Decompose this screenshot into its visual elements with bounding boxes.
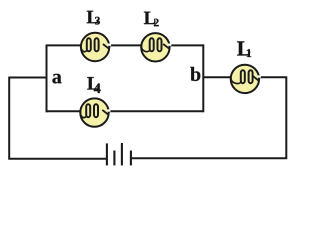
lamp L1: [231, 65, 261, 93]
node a: [52, 74, 61, 84]
lamp L3: [81, 33, 111, 61]
label L4 letter: [87, 77, 99, 89]
wire: inner left vertical (node a): [46, 45, 48, 113]
lamp L2: [141, 33, 171, 61]
wire: top branch: [47, 44, 204, 46]
battery plate 1 (long): [106, 143, 108, 165]
battery plate 2 (short): [113, 151, 115, 166]
label L1 subscript 1: [247, 49, 251, 57]
wire: node b to lamp L1 and outer right vertical down to bottom: [131, 77, 286, 158]
label L1 letter: [237, 41, 250, 55]
label L2 subscript 2: [154, 19, 159, 27]
node b: [190, 67, 200, 81]
label L2 letter: [144, 12, 156, 24]
label L4 subscript 4: [94, 83, 101, 93]
battery plate 3 (long): [121, 143, 123, 165]
battery plate 4 (short): [130, 151, 132, 166]
label L3 letter: [87, 11, 99, 23]
lamp L4: [80, 98, 110, 126]
wire: inner right vertical (node b): [202, 44, 204, 112]
label L3 subscript 3: [95, 17, 100, 25]
wire: outer left loop (feed to node a, left vertical, bottom-left to battery): [9, 78, 106, 159]
wire: bottom branch: [47, 110, 204, 112]
